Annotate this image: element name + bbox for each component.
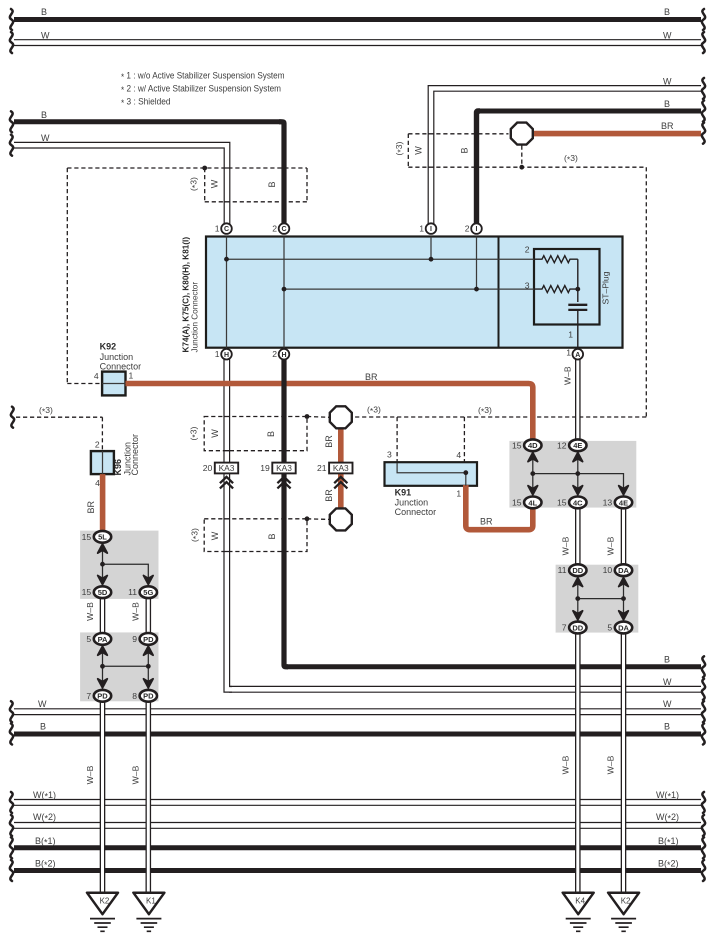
svg-text:DD: DD	[572, 566, 583, 575]
node junction 2I column	[474, 287, 479, 292]
connector KA3 pin19	[272, 463, 295, 474]
svg-text:5: 5	[86, 634, 91, 644]
splice L1 internal tie 5L to 5D/5G	[103, 542, 149, 587]
wire B segment pin 2H down to lower B bus	[284, 358, 288, 667]
svg-text:19: 19	[260, 463, 270, 473]
svg-text:B: B	[41, 7, 47, 17]
node dashed-junction below top octagon	[519, 165, 524, 170]
svg-text:(*3): (*3)	[188, 426, 200, 440]
arrow up into 4D	[528, 453, 538, 462]
terminal 5G	[140, 586, 157, 598]
svg-text:K4: K4	[575, 897, 585, 906]
svg-text:4: 4	[95, 478, 100, 488]
terminal PD pin8	[140, 690, 157, 702]
arrow down into 5D	[98, 576, 108, 585]
svg-text:* 1 : w/o Active Stabilizer Su: * 1 : w/o Active Stabilizer Suspension S…	[121, 71, 285, 83]
connector KA3 pin21	[329, 463, 352, 474]
svg-text:K91: K91	[395, 488, 412, 498]
shield octagon mid upper	[330, 406, 352, 428]
label K91 block	[395, 488, 437, 518]
break symbol W(*1) right	[702, 792, 705, 813]
resistor R2 (ST-Plug pin3)	[534, 286, 578, 293]
svg-text:B: B	[41, 110, 47, 120]
svg-text:Junction: Junction	[395, 498, 429, 508]
terminal PD pin7	[94, 690, 111, 702]
svg-text:B: B	[664, 7, 670, 17]
svg-text:B: B	[460, 147, 470, 153]
wire BR from K96 pin4 to splice 5L	[100, 474, 106, 532]
wire BR octagon1 to KA3 21	[338, 429, 344, 464]
svg-text:2: 2	[465, 223, 470, 233]
splice B internal tie DD/DA	[578, 575, 624, 622]
pin 2C of junction connector	[279, 223, 290, 234]
svg-text:3: 3	[387, 449, 392, 459]
svg-text:H: H	[224, 352, 229, 359]
svg-text:H: H	[281, 352, 286, 359]
svg-text:B(*2): B(*2)	[658, 859, 679, 871]
svg-text:W: W	[210, 179, 220, 188]
svg-text:8: 8	[132, 691, 137, 701]
node junction 1C column	[224, 257, 229, 262]
svg-text:12: 12	[557, 440, 567, 450]
shield dashed stub to octagon mid lower	[307, 518, 329, 521]
svg-text:C: C	[224, 226, 229, 233]
break symbol W bus second left	[10, 135, 13, 156]
svg-text:2: 2	[272, 349, 277, 359]
shield dashed right side down to K91 level	[353, 167, 646, 417]
svg-text:A: A	[575, 352, 580, 359]
break symbol W bus full left	[10, 701, 13, 722]
wire W(*2) bus (double line)	[13, 822, 702, 829]
svg-text:2: 2	[272, 223, 277, 233]
break symbol B bus top-right end	[702, 101, 705, 122]
wire ST-Plug vertical R1 to R2 node	[577, 259, 579, 302]
svg-text:PD: PD	[143, 635, 154, 644]
arrow up into DD(11)	[573, 578, 583, 587]
node junction splice B col DD	[575, 596, 580, 601]
arrow chevron below KA3 pin19	[277, 477, 290, 489]
svg-text:5G: 5G	[143, 588, 153, 597]
svg-text:7: 7	[86, 691, 91, 701]
svg-text:W: W	[414, 146, 424, 155]
svg-text:K92: K92	[100, 342, 117, 352]
svg-text:9: 9	[132, 634, 137, 644]
node junction ST-Plug	[575, 287, 580, 292]
wire internal K96	[102, 451, 104, 474]
svg-text:B: B	[40, 722, 46, 732]
svg-text:W: W	[663, 31, 672, 41]
break symbol W bus lower right	[702, 679, 705, 700]
svg-text:4E: 4E	[573, 441, 582, 450]
label K92 block	[100, 342, 142, 372]
wire BR KA3 21 to octagon2	[338, 474, 344, 509]
wire internal K92	[102, 383, 125, 385]
break symbol W bus full right	[702, 701, 705, 722]
break symbol B bus top right	[702, 9, 705, 30]
ST-Plug inner box	[534, 249, 600, 325]
ground K1 left	[133, 893, 164, 932]
break symbol BR bus right end	[702, 123, 705, 144]
arrow down into 4E(13)	[619, 486, 629, 495]
node junction 1I column	[429, 257, 434, 262]
svg-text:W–B: W–B	[85, 602, 95, 621]
wire W bus second-left (double line)	[13, 145, 227, 225]
wire internal 1C-1H	[226, 237, 228, 348]
wire B bus second-left horizontal	[14, 119, 282, 124]
svg-text:B: B	[664, 654, 670, 664]
svg-text:W–B: W–B	[562, 366, 572, 385]
svg-text:W: W	[663, 677, 672, 687]
svg-text:W–B: W–B	[560, 755, 570, 774]
arrow down into DA(5)	[619, 611, 629, 620]
svg-text:4L: 4L	[528, 498, 537, 507]
svg-text:K74(A), K75(C), K80(H), K81(I): K74(A), K75(C), K80(H), K81(I)	[181, 237, 190, 353]
shield dashed drops to K91 pins 3 and 4	[397, 417, 464, 462]
svg-text:1: 1	[568, 330, 573, 340]
wire W-B segment splice 4E to splice DA (double line)	[621, 506, 627, 566]
junction connector K92 body	[102, 372, 125, 396]
break symbol W bus top right	[702, 32, 705, 53]
svg-text:Junction Connector: Junction Connector	[191, 282, 200, 353]
svg-text:4: 4	[94, 371, 99, 381]
capacitor C1 (ST-Plug)	[568, 305, 587, 310]
svg-text:15: 15	[512, 440, 522, 450]
svg-text:1: 1	[215, 349, 220, 359]
node dashed-junction mid lower	[305, 516, 310, 521]
node dashed-junction top-left	[202, 166, 207, 171]
svg-text:K1: K1	[146, 897, 156, 906]
svg-text:K2: K2	[621, 897, 631, 906]
arrow up into 4E(12)	[573, 453, 583, 462]
shield dashed stub to octagon mid upper	[307, 416, 329, 419]
arrow chevron below KA3 pin21	[334, 477, 347, 489]
junction connector K74/K75/K80/K81 body	[206, 237, 623, 348]
svg-text:C: C	[281, 226, 286, 233]
label K96 block rotated	[113, 434, 140, 476]
ground K2 left	[87, 893, 118, 932]
pin 1I of junction connector	[426, 223, 437, 234]
node junction splice A col 4C	[575, 471, 580, 476]
svg-text:DA: DA	[618, 566, 629, 575]
terminal PA pin5	[94, 633, 111, 645]
break symbol B(*1) left	[10, 837, 13, 858]
wire internal row to ST-Plug pin2	[227, 258, 535, 260]
svg-text:5: 5	[607, 623, 612, 633]
svg-text:PD: PD	[97, 692, 108, 701]
wire B segment bus to pin 2I	[477, 111, 481, 225]
terminal PD pin9	[140, 633, 157, 645]
svg-text:W: W	[210, 531, 220, 540]
junction connector K96 body	[91, 451, 114, 474]
arrow down into 4C	[573, 486, 583, 495]
svg-text:W–B: W–B	[131, 765, 141, 784]
svg-text:1: 1	[456, 488, 461, 498]
wire B bus top	[14, 17, 701, 22]
svg-text:W–B: W–B	[131, 602, 141, 621]
svg-text:2: 2	[95, 439, 100, 449]
svg-text:KA3: KA3	[333, 463, 349, 473]
svg-text:DA: DA	[618, 623, 629, 632]
break symbol B bus top left	[10, 9, 13, 30]
svg-text:4C: 4C	[573, 498, 583, 507]
pin 1A of junction connector	[573, 349, 584, 360]
arrow up into 5L	[98, 544, 108, 553]
svg-text:20: 20	[203, 463, 213, 473]
wire internal 2C-2H	[283, 237, 285, 348]
terminal 5D	[94, 586, 111, 598]
svg-text:5D: 5D	[98, 588, 108, 597]
arrow down into 4L	[528, 486, 538, 495]
svg-text:15: 15	[557, 497, 567, 507]
svg-text:* 2 : w/ Active Stabilizer Sus: * 2 : w/ Active Stabilizer Suspension Sy…	[121, 84, 281, 96]
wire W(*1) bus (double line)	[13, 799, 702, 806]
wire BR from K91 pin1 to splice 4L	[466, 485, 533, 530]
label notes	[121, 71, 285, 109]
svg-text:Connector: Connector	[100, 362, 142, 372]
svg-text:B: B	[267, 181, 277, 187]
wire W bus full-width (double line)	[13, 708, 702, 715]
svg-text:11: 11	[128, 587, 137, 597]
svg-text:W(*2): W(*2)	[33, 812, 56, 824]
svg-text:W(*2): W(*2)	[656, 812, 679, 824]
svg-text:DD: DD	[572, 623, 583, 632]
break symbol B bus full right	[702, 724, 705, 745]
svg-text:BR: BR	[365, 372, 378, 382]
pin 2H of junction connector	[279, 349, 290, 360]
svg-text:B: B	[266, 431, 276, 437]
svg-text:B: B	[267, 533, 277, 539]
break symbol W bus top-right end	[702, 78, 705, 99]
terminal DD pin11	[569, 564, 586, 576]
terminal 4L	[524, 497, 541, 509]
svg-text:I: I	[430, 226, 432, 233]
svg-text:4E: 4E	[619, 498, 628, 507]
splice box DD/DA shading	[556, 565, 639, 633]
break symbol B bus full left	[10, 724, 13, 745]
break symbol B bus lower right	[702, 656, 705, 677]
wire W bus top (double line)	[13, 39, 702, 46]
wire W segment pin 1H down to lower W bus (double line)	[227, 358, 232, 689]
resistor R1 (ST-Plug pin2)	[534, 256, 578, 263]
wire W bus lower (from 1H column) horizontal (double line)	[229, 686, 702, 693]
svg-text:B(*2): B(*2)	[35, 859, 56, 871]
svg-text:B: B	[664, 99, 670, 109]
wire ST-Plug capacitor to pin A	[577, 310, 579, 350]
svg-text:4: 4	[456, 450, 461, 460]
wire B segment bus to pin 2C	[279, 122, 284, 225]
ground K2 right	[608, 893, 639, 932]
arrow down into PD(7)	[98, 679, 108, 688]
wire BR from K92 pin1 to splice 4D	[126, 384, 533, 442]
arrow up into DA(10)	[619, 578, 629, 587]
svg-text:W–B: W–B	[560, 536, 570, 555]
pin 2I of junction connector	[471, 223, 482, 234]
arrow up into PA(5)	[98, 646, 108, 655]
svg-text:4D: 4D	[528, 441, 538, 450]
svg-text:BR: BR	[86, 500, 96, 513]
svg-text:BR: BR	[324, 489, 334, 502]
shield dashed box top-right (W/B wires, *3)	[408, 134, 646, 167]
svg-text:(*3): (*3)	[39, 405, 53, 417]
svg-text:W–B: W–B	[85, 765, 95, 784]
terminal 5L	[94, 531, 111, 543]
svg-text:15: 15	[82, 532, 92, 542]
terminal DA pin10	[615, 564, 632, 576]
svg-text:W–B: W–B	[606, 755, 616, 774]
svg-text:K2: K2	[100, 897, 110, 906]
wire W-B segment splice PD8 to ground K1 (double line)	[146, 699, 152, 894]
terminal 4C	[569, 497, 586, 509]
svg-text:1: 1	[419, 223, 424, 233]
wire W bus top-right (double line) to pin 1I	[431, 88, 702, 225]
svg-text:(*3): (*3)	[564, 153, 578, 165]
svg-text:W: W	[41, 31, 50, 41]
junction connector internal divider	[498, 237, 500, 348]
break symbol W bus top left	[10, 32, 13, 53]
splice L2 internal tie PA/PD9 to PD7/PD8	[103, 644, 149, 691]
svg-text:13: 13	[603, 497, 613, 507]
svg-text:W: W	[210, 429, 220, 438]
svg-text:(*3): (*3)	[367, 405, 381, 417]
svg-text:1: 1	[215, 223, 220, 233]
break symbol W(*2) right	[702, 815, 705, 836]
break symbol B(*1) right	[702, 837, 705, 858]
break symbol B bus second left	[10, 111, 13, 132]
node junction splice L1	[100, 562, 105, 567]
svg-text:W: W	[41, 133, 50, 143]
svg-text:Connector: Connector	[130, 434, 140, 476]
wire W-B segment splice 5G to splice PD9 (double line)	[146, 596, 152, 635]
svg-text:2: 2	[525, 245, 530, 255]
svg-text:(*3): (*3)	[189, 177, 201, 191]
svg-text:PA: PA	[98, 635, 108, 644]
ground K4 right	[563, 893, 594, 932]
svg-text:W: W	[38, 699, 47, 709]
svg-text:3: 3	[525, 280, 530, 290]
svg-text:W(*1): W(*1)	[656, 790, 679, 802]
svg-text:PD: PD	[143, 692, 154, 701]
wire B bus top-right horizontal	[479, 109, 701, 114]
svg-text:B(*1): B(*1)	[35, 836, 56, 848]
arrow chevron below KA3 pin20	[220, 477, 233, 489]
break symbol B(*2) left	[10, 860, 13, 881]
shield octagon top	[511, 123, 533, 145]
wire W-B segment splice 4C to splice DD (double line)	[575, 506, 581, 566]
svg-text:W–B: W–B	[606, 536, 616, 555]
svg-text:BR: BR	[324, 435, 334, 448]
terminal 4E pin12	[569, 439, 586, 451]
wire W-B segment splice DD pin7 to ground K4 (double line)	[575, 631, 581, 894]
svg-text:(*3): (*3)	[190, 528, 202, 542]
svg-text:11: 11	[558, 565, 567, 575]
terminal DD pin7	[569, 622, 586, 634]
svg-text:10: 10	[603, 565, 613, 575]
wire internal 1I stub	[430, 237, 432, 260]
wire W-B segment splice PD7 to ground K2 (double line)	[100, 699, 106, 894]
node junction K91 pin1	[463, 470, 468, 475]
svg-text:BR: BR	[661, 121, 674, 131]
svg-text:Connector: Connector	[395, 507, 437, 517]
node junction splice B col DA	[621, 596, 626, 601]
break symbol shield dashed left	[11, 407, 14, 428]
wire B bus lower (from 2H column) horizontal	[287, 664, 702, 669]
splice box 4D/4E/4L/4C/4E shading	[509, 441, 636, 508]
svg-text:B(*1): B(*1)	[658, 836, 679, 848]
node junction splice L2 col PA	[100, 664, 105, 669]
svg-text:BR: BR	[480, 517, 493, 527]
svg-text:15: 15	[82, 587, 92, 597]
shield dashed box mid upper (W/B wires, *3)	[204, 417, 307, 451]
svg-text:B: B	[664, 722, 670, 732]
svg-text:W: W	[663, 699, 672, 709]
pin 1H of junction connector	[221, 349, 232, 360]
shield dashed box left (W/B wires, *3)	[67, 168, 307, 202]
wire B bus full-width	[14, 732, 701, 737]
wire BR bus top-right from octagon	[533, 131, 701, 137]
svg-text:KA3: KA3	[219, 463, 235, 473]
svg-text:I: I	[476, 226, 478, 233]
break symbol W(*1) left	[10, 792, 13, 813]
shield dashed stub from top octagon	[521, 146, 523, 168]
splice A internal tie 4D/4E to 4L/4C/4E	[533, 450, 624, 497]
splice box PA/PD shading	[80, 632, 158, 701]
connector KA3 pin20	[215, 463, 238, 474]
wire internal 2I stub	[476, 237, 478, 290]
arrow up into PD(9)	[144, 646, 154, 655]
svg-text:Junction: Junction	[100, 352, 134, 362]
wire W-B segment splice 5D to splice PA (double line)	[100, 596, 106, 635]
node junction splice A col 4D	[530, 471, 535, 476]
shield octagon mid lower	[330, 508, 352, 530]
svg-text:7: 7	[562, 623, 567, 633]
wire internal row to ST-Plug pin3	[284, 288, 534, 290]
svg-text:ST–Plug: ST–Plug	[601, 271, 611, 304]
svg-text:W: W	[663, 76, 672, 86]
svg-text:KA3: KA3	[276, 463, 292, 473]
node junction splice L2 col PD9	[146, 664, 151, 669]
svg-text:(*3): (*3)	[478, 405, 492, 417]
junction connector K91 body	[385, 462, 478, 486]
wire B(*1) bus	[14, 845, 701, 850]
break symbol B(*2) right	[702, 860, 705, 881]
arrow down into PD(8)	[144, 679, 154, 688]
svg-text:W(*1): W(*1)	[33, 790, 56, 802]
svg-text:1: 1	[129, 370, 134, 380]
svg-text:21: 21	[317, 463, 327, 473]
shield dashed arm to K92	[67, 168, 101, 384]
wire B(*2) bus	[14, 868, 701, 873]
break symbol W(*2) left	[10, 815, 13, 836]
shield dashed left (*3) to K96	[16, 417, 102, 451]
svg-text:(*3): (*3)	[394, 141, 406, 155]
shield dashed box mid lower (W/B wires, *3)	[204, 519, 307, 552]
terminal 4E pin13	[615, 497, 632, 509]
arrow down into 5G	[144, 576, 154, 585]
svg-text:1: 1	[566, 347, 571, 357]
pin 1C of junction connector	[221, 223, 232, 234]
shield dash marks crossing white wires	[224, 134, 435, 552]
svg-text:* 3 : Shielded: * 3 : Shielded	[121, 97, 171, 109]
splice box 5L/5D/5G shading	[80, 531, 158, 599]
wire internal K91 bus	[397, 463, 466, 486]
node junction 2C column	[282, 287, 287, 292]
wire W-B segment pin A to splice 4E (double line)	[575, 358, 581, 441]
arrow down into DD(7)	[573, 611, 583, 620]
terminal DA pin5	[615, 622, 632, 634]
node dashed-junction mid upper	[305, 414, 310, 419]
terminal 4D	[524, 439, 541, 451]
svg-text:5L: 5L	[98, 533, 107, 542]
